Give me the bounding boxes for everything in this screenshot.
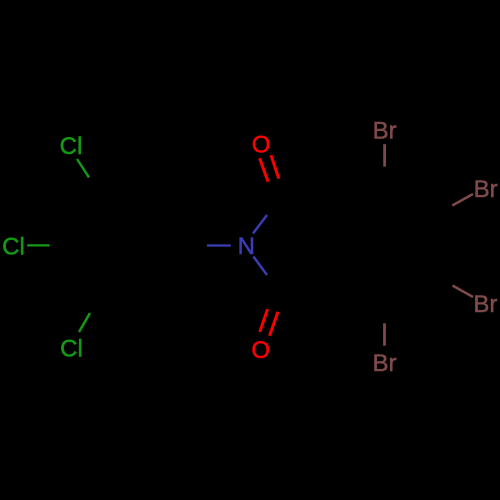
C=O double bond top (line b) (271, 155, 279, 178)
C=O double bond top (line a) (260, 158, 268, 181)
svg-text:Br: Br (373, 117, 397, 144)
svg-text:Cl: Cl (60, 336, 83, 363)
bond Br5 to ring C5 (upper-right diagonal) (452, 194, 473, 206)
bond N to carbonyl C (lower-right) (253, 257, 267, 276)
svg-text:O: O (251, 337, 270, 364)
bond Br6 to ring C6 (lower-right diagonal) (453, 286, 474, 298)
svg-text:Cl: Cl (2, 234, 25, 261)
bond Cl3 to phenyl C3 (upper-left diagonal) (77, 159, 89, 178)
svg-text:Cl: Cl (60, 133, 83, 160)
bond N to carbonyl C (upper-right) (253, 215, 267, 234)
bond Cl4 to phenyl C4 (horizontal) (27, 244, 49, 246)
svg-text:Br: Br (473, 291, 497, 318)
svg-text:Br: Br (373, 350, 397, 377)
bond N to phenyl C1 (horizontal) (207, 244, 231, 246)
C=O double bond bottom (line a) (260, 309, 268, 332)
svg-text:N: N (238, 233, 255, 260)
bond Br4 to ring C4 (vertical, top) (383, 144, 386, 166)
bond Cl5 to phenyl C5 (lower-left diagonal) (79, 313, 90, 332)
svg-text:O: O (252, 132, 271, 159)
C=O double bond bottom (line b) (270, 312, 279, 336)
bond Br7 to ring C7 (vertical, bottom) (383, 323, 386, 345)
svg-text:Br: Br (474, 176, 498, 203)
